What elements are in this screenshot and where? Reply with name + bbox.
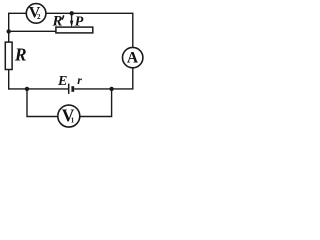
wire V1 loop right (V1 right and up to node) bbox=[80, 89, 112, 117]
wire top-left horizontal (corner to V2) bbox=[9, 12, 27, 14]
svg-text:P: P bbox=[75, 14, 84, 29]
voltmeter V1 bbox=[58, 105, 80, 127]
wire left vertical upper (corner to resistor R) bbox=[8, 13, 10, 43]
svg-text:1: 1 bbox=[71, 117, 75, 125]
wire V1 loop left (node down and right to V1) bbox=[27, 89, 58, 117]
node bottom-right (V1 branch junction) bbox=[109, 87, 113, 91]
rheostat wiper arrow P bbox=[71, 13, 73, 21]
wire bottom left (corner to battery) bbox=[8, 88, 69, 90]
battery cell short thick plate bbox=[71, 86, 74, 92]
svg-text:r: r bbox=[77, 73, 82, 87]
svg-text:R: R bbox=[52, 13, 63, 29]
svg-text:A: A bbox=[127, 49, 139, 66]
wire left vertical lower (resistor R to bottom wire) bbox=[8, 69, 10, 89]
rheostat R' body bbox=[56, 27, 93, 33]
node at wiper on top wire bbox=[70, 11, 74, 15]
svg-text:E: E bbox=[57, 74, 67, 89]
wire top horizontal (V2 to top-right corner) bbox=[46, 12, 133, 14]
wire rheostat branch (node to rheostat left terminal) bbox=[9, 30, 56, 32]
svg-text:2: 2 bbox=[37, 13, 41, 21]
ammeter A bbox=[123, 47, 143, 67]
wire bottom right (battery to bottom-right corner) bbox=[74, 88, 133, 90]
battery cell E,r : long thin plate bbox=[68, 84, 70, 94]
node on left (rheostat branch junction) bbox=[7, 29, 11, 33]
resistor R bbox=[5, 42, 12, 69]
svg-text:R: R bbox=[14, 45, 27, 65]
wire right vertical upper (top-right corner to ammeter) bbox=[132, 13, 134, 48]
voltmeter V2 bbox=[26, 4, 46, 24]
node bottom-left (V1 branch junction) bbox=[25, 87, 29, 91]
wire right vertical lower (ammeter to bottom-right corner) bbox=[132, 68, 134, 90]
